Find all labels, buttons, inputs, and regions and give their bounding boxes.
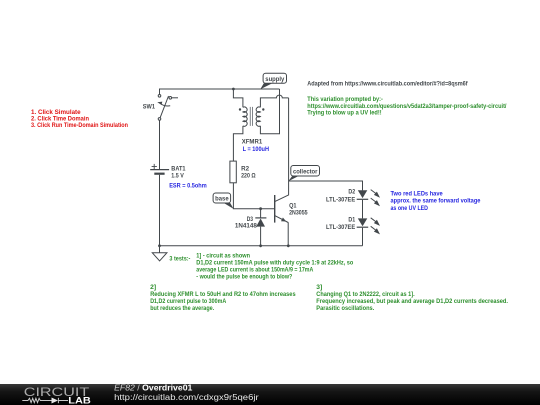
note: adapted-from annotation: [307, 81, 468, 88]
svg-text:Adapted from https://www.circu: Adapted from https://www.circuitlab.com/…: [307, 81, 468, 88]
ground: [152, 246, 167, 261]
label BAT1: [171, 166, 186, 180]
svg-text:1] - circuit as shown: 1] - circuit as shown: [196, 252, 250, 259]
svg-text:D1,D2 current pulse to 300mA: D1,D2 current pulse to 300mA: [150, 298, 226, 305]
svg-text:LTL-307EE: LTL-307EE: [326, 197, 355, 204]
svg-text:base: base: [215, 196, 229, 203]
svg-text:3. Click Run Time-Domain Simul: 3. Click Run Time-Domain Simulation: [31, 122, 128, 129]
svg-text:3 tests:-: 3 tests:-: [169, 255, 190, 262]
svg-text:average LED current is about 1: average LED current is about 150mA/9 = 1…: [196, 266, 313, 273]
LED D2: [357, 190, 380, 219]
label R2: [241, 166, 256, 180]
svg-text:EF82 / Overdrive01: EF82 / Overdrive01: [114, 383, 193, 392]
wire primary bottom to R2: [233, 126, 243, 161]
svg-text:supply: supply: [265, 76, 284, 83]
resistor R2: [230, 161, 236, 183]
transistor Q1: [275, 195, 289, 246]
svg-text:SW1: SW1: [143, 104, 156, 111]
svg-text:- would the pulse be enough to: - would the pulse be enough to blow?: [196, 273, 292, 280]
svg-text:but reduces the average.: but reduces the average.: [150, 305, 214, 312]
wire junction to primary top: [233, 89, 243, 107]
note: test 2 annotation: [150, 284, 296, 312]
svg-text:Frequency increased, but peak: Frequency increased, but peak and averag…: [316, 298, 508, 305]
svg-text:XFMR1: XFMR1: [242, 138, 263, 145]
note: blue LED annotation: [391, 191, 481, 212]
label Q1: [289, 202, 308, 216]
svg-text:Reducing XFMR L to 50uH and R2: Reducing XFMR L to 50uH and R2 to 47ohm …: [150, 291, 296, 298]
note: test 3 annotation: [316, 284, 508, 312]
flag collector: [288, 166, 319, 182]
switch SW1: [157, 95, 178, 121]
svg-text:D2: D2: [348, 188, 355, 195]
red instruction text: [31, 109, 128, 129]
svg-text:Changing Q1 to 2N2222, circuit: Changing Q1 to 2N2222, circuit as 1].: [316, 291, 415, 298]
svg-text:2N3055: 2N3055: [289, 210, 308, 217]
node base-D3 junction: [259, 207, 262, 210]
svg-text:L = 100uH: L = 100uH: [243, 146, 270, 153]
battery BAT1: [150, 164, 169, 174]
svg-text:3]: 3]: [316, 284, 322, 291]
svg-text:220 Ω: 220 Ω: [241, 172, 256, 179]
wire bottom ground rail: [160, 245, 363, 247]
label D3: [235, 216, 257, 230]
svg-text:Q1: Q1: [289, 202, 297, 209]
node battery-ground junction: [158, 244, 161, 247]
transformer XFMR1 secondary winding: [256, 107, 260, 126]
svg-text:LTL-307EE: LTL-307EE: [326, 224, 355, 231]
svg-text:Trying to blow up a UV led!!: Trying to blow up a UV led!!: [307, 109, 381, 116]
svg-text:D1: D1: [348, 217, 355, 224]
footer bar: [0, 384, 540, 405]
wire battery to ground rail: [159, 175, 161, 246]
svg-text:Two red LEDs have: Two red LEDs have: [391, 191, 444, 198]
wire supply branch down to secondary bottom: [260, 89, 279, 134]
wire collector branch vertical: [275, 98, 289, 202]
node supply junction: [232, 88, 235, 91]
flag base: [213, 193, 234, 209]
diode D3: [255, 209, 266, 246]
wire R2 to base node: [233, 183, 274, 209]
label D2: [326, 188, 356, 203]
svg-text:approx. the same forward volta: approx. the same forward voltage: [391, 198, 481, 205]
note: 3 tests label: [169, 255, 190, 262]
svg-text:Parasitic oscillations.: Parasitic oscillations.: [316, 305, 374, 312]
node emitter-ground junction: [287, 244, 290, 247]
transformer XFMR1 core: [250, 107, 252, 126]
svg-text:collector: collector: [293, 168, 318, 175]
wire collector to LED branch: [289, 181, 363, 190]
note: test 1 annotation: [196, 252, 353, 280]
svg-text:http://circuitlab.com/cdxgx9r5: http://circuitlab.com/cdxgx9r5qe6jr: [114, 393, 259, 402]
svg-text:ESR = 0.5ohm: ESR = 0.5ohm: [169, 182, 207, 189]
LED D1: [357, 218, 380, 246]
svg-text:1.5 V: 1.5 V: [171, 173, 184, 180]
flag supply: [260, 73, 286, 89]
svg-text:1N4148: 1N4148: [235, 223, 257, 230]
wire SW1 to battery: [159, 120, 161, 169]
wire secondary top with hop to collector branch: [260, 95, 288, 107]
svg-text:2]: 2]: [150, 284, 156, 291]
footer title text: [114, 383, 193, 392]
footer logo resistor-diode glyph: [22, 398, 68, 404]
transformer phase dot secondary: [262, 108, 264, 110]
note: green variation annotation: [307, 96, 506, 116]
wire top supply rail: [160, 89, 280, 95]
svg-text:LAB: LAB: [68, 395, 91, 405]
label D1: [326, 217, 356, 231]
svg-text:D1,D2 current 150mA pulse with: D1,D2 current 150mA pulse with duty cycl…: [196, 259, 353, 266]
transformer XFMR1 primary winding: [243, 107, 247, 126]
transformer phase dot primary: [239, 108, 241, 110]
svg-text:as one UV LED: as one UV LED: [391, 205, 429, 212]
node D3-ground junction: [259, 244, 262, 247]
